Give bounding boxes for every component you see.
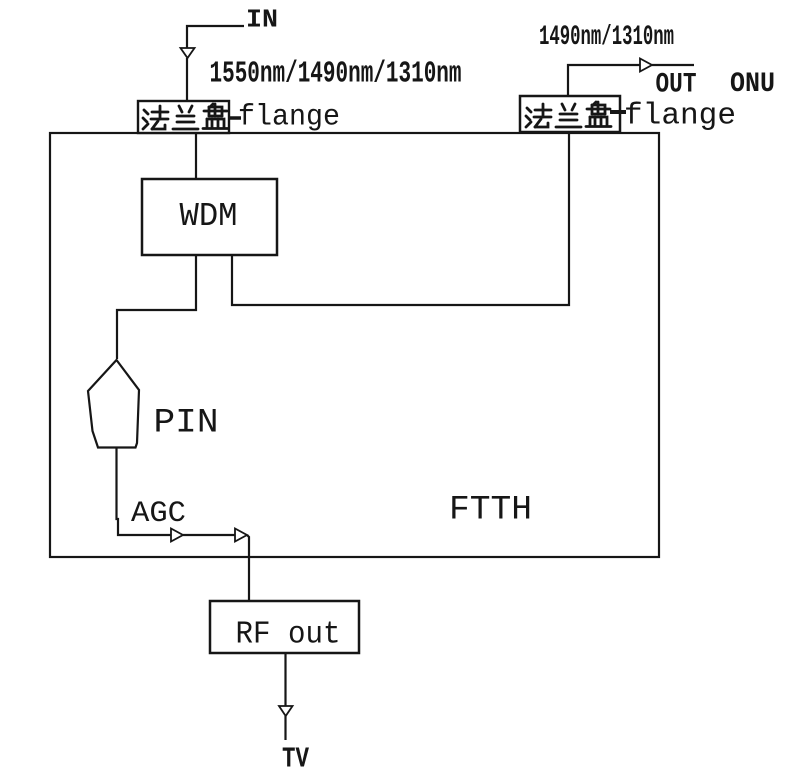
- svg-text:OUT: OUT: [656, 70, 697, 101]
- svg-text:PIN: PIN: [154, 405, 219, 443]
- WDM box: [142, 179, 277, 255]
- arrow TV down: [279, 706, 293, 716]
- svg-text:ONU: ONU: [730, 69, 775, 100]
- arrow AGC 1: [171, 529, 183, 542]
- wire RF out down: [284, 653, 286, 706]
- svg-text:AGC: AGC: [131, 497, 186, 531]
- svg-text:TV: TV: [282, 743, 309, 770]
- svg-text:1550nm/1490nm/1310nm: 1550nm/1490nm/1310nm: [210, 57, 462, 92]
- svg-text:flange: flange: [238, 101, 340, 135]
- wire to RF out: [247, 535, 249, 601]
- svg-text:FTTH: FTTH: [449, 492, 532, 530]
- arrow OUT right: [640, 59, 652, 72]
- FTTH enclosure box: [50, 133, 659, 557]
- wire PIN to AGC line: [117, 448, 172, 536]
- wire input to flange L: [186, 58, 188, 101]
- svg-text:IN: IN: [246, 5, 278, 35]
- label 法兰盘 right: [526, 102, 611, 127]
- svg-text:flange: flange: [624, 99, 736, 134]
- wire OUT branch: [568, 65, 640, 96]
- arrow AGC 2: [235, 529, 247, 542]
- RF out box: [210, 601, 359, 653]
- wire WDM right port to flange R: [232, 132, 569, 305]
- wire flange L to WDM: [195, 133, 197, 179]
- flange box left: [138, 101, 229, 133]
- photodiode PIN: [88, 360, 139, 448]
- arrow input down: [181, 48, 195, 58]
- svg-text:RF out: RF out: [236, 618, 341, 653]
- wire IN tick: [187, 26, 244, 48]
- wire WDM left port down: [117, 255, 196, 359]
- dash connector right: [610, 110, 626, 114]
- dash connector left: [228, 116, 241, 120]
- wire after OUT arrow: [652, 64, 694, 66]
- wire between arrows: [183, 534, 235, 536]
- svg-text:1490nm/1310nm: 1490nm/1310nm: [539, 22, 674, 53]
- label 法兰盘 left: [143, 104, 228, 129]
- wire to TV: [284, 716, 286, 740]
- svg-text:WDM: WDM: [180, 198, 238, 235]
- flange box right: [520, 96, 620, 132]
